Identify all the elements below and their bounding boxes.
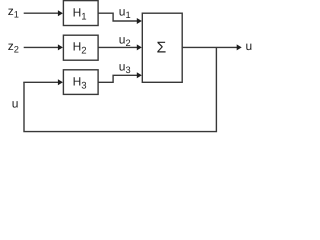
svg-text:Σ: Σ (156, 40, 166, 57)
svg-text:u: u (12, 96, 19, 110)
node u3 label (119, 60, 131, 76)
node u1 label (119, 4, 131, 19)
node u2 label (119, 33, 131, 49)
wire H2 output to summer (98, 44, 142, 50)
node z2 label (8, 39, 19, 55)
svg-text:u: u (246, 39, 253, 53)
node z1 label (8, 4, 19, 20)
wire z1 into H1 (24, 10, 63, 16)
wire z2 into H2 (24, 44, 63, 50)
block H3 (63, 70, 98, 95)
block H1 (63, 1, 98, 26)
wire H1 output to summer (98, 13, 142, 24)
node u label right output (246, 39, 253, 53)
block H2 (63, 35, 98, 60)
wire feedback loop down around bottom to left (24, 48, 216, 132)
summer block sigma (142, 13, 182, 82)
wire H3 output to summer (98, 72, 142, 82)
node u label left feedback (12, 96, 19, 110)
wire u feedback into H3 (23, 79, 63, 85)
wire summer output to u (182, 44, 242, 50)
